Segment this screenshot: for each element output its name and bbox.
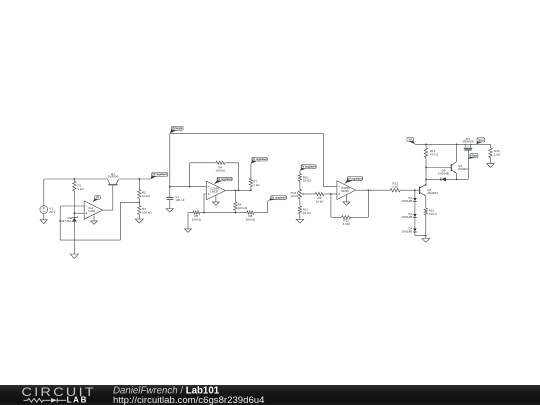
ground under R5	[185, 229, 192, 232]
logo resistor-diode squiggle	[24, 398, 67, 402]
svg-text:100 kΩ: 100 kΩ	[216, 169, 226, 173]
flag 5V regulated on R8	[268, 196, 287, 201]
ground under R3	[135, 219, 143, 223]
op-amp COMP2	[337, 181, 356, 200]
resistor R8	[236, 211, 268, 222]
svg-text:5V regulated: 5V regulated	[348, 177, 363, 180]
svg-text:100 kΩ: 100 kΩ	[238, 206, 248, 210]
svg-text:10 kΩ: 10 kΩ	[303, 179, 312, 183]
svg-text:470 Ω: 470 Ω	[430, 152, 439, 156]
resistor R13	[390, 181, 400, 192]
ground under COMP2	[343, 195, 350, 205]
svg-text:5V regulated: 5V regulated	[217, 178, 232, 181]
svg-text:10 kΩ: 10 kΩ	[316, 199, 325, 203]
svg-text:20 V: 20 V	[49, 210, 55, 214]
resistor R12 hysteresis	[331, 190, 369, 226]
potentiometer POT1	[290, 189, 305, 199]
wire OA1 output to Q1 base	[103, 185, 113, 210]
op-amp COMP1	[207, 181, 226, 200]
svg-text:10 kΩ: 10 kΩ	[303, 211, 312, 215]
svg-text:5V regulated: 5V regulated	[301, 166, 316, 169]
svg-text:SPEAKER: SPEAKER	[462, 141, 474, 144]
wire Q1 emitter rail	[119, 178, 151, 180]
flag 5V on top rail	[407, 137, 415, 144]
svg-text:2N3904: 2N3904	[458, 167, 469, 171]
wire Q3 base	[426, 167, 451, 169]
wire top 5V rail	[415, 143, 491, 145]
svg-text:LM339: LM339	[210, 190, 218, 194]
svg-text:Vtriangle: Vtriangle	[172, 127, 183, 130]
resistor R16	[489, 144, 501, 163]
ground under D1	[70, 254, 78, 258]
svg-text:100 kΩ: 100 kΩ	[142, 210, 152, 214]
svg-text:2N3904: 2N3904	[427, 191, 438, 195]
wire R1 to zener	[73, 191, 75, 218]
resistor R6	[234, 190, 248, 212]
voltage source V1	[40, 179, 56, 220]
resistor R11	[298, 206, 311, 219]
transistor Q2	[420, 184, 439, 208]
wire Vtriangle rail to stage 3	[170, 133, 323, 186]
wire chain bottom to ground	[415, 232, 427, 239]
resistor R3	[138, 206, 153, 220]
CircuitLab logo wordmark CIRCUIT	[22, 385, 97, 399]
svg-text:1 kΩ: 1 kΩ	[494, 152, 501, 156]
svg-text:1 kΩ: 1 kΩ	[392, 185, 399, 189]
flag Vout	[476, 138, 485, 144]
resistor R2	[138, 179, 151, 199]
svg-text:5V regulated: 5V regulated	[152, 173, 167, 176]
svg-text:1 kΩ: 1 kΩ	[77, 187, 84, 191]
svg-text:10 kΩ: 10 kΩ	[290, 194, 299, 198]
resistor R10	[298, 171, 311, 183]
svg-text:5V regulated: 5V regulated	[252, 158, 267, 161]
wire divider midpoint	[138, 199, 140, 206]
flag 5V regulated supply on COMP2	[344, 177, 362, 184]
svg-text:100 Ω: 100 Ω	[429, 212, 438, 216]
wire R10 to POT1	[299, 181, 301, 189]
ground under C1	[166, 209, 173, 213]
svg-text:1N914B: 1N914B	[438, 171, 449, 175]
svg-text:100 nF: 100 nF	[175, 198, 185, 202]
wire top rail V1 to Q1 collector	[44, 178, 108, 180]
wire R8 to flag	[267, 201, 269, 213]
resistor R14	[424, 144, 438, 157]
wire COMP1 non-inverting input	[204, 194, 207, 213]
diode D5	[438, 169, 449, 182]
svg-text:LAB: LAB	[67, 395, 89, 404]
svg-text:1N914B: 1N914B	[401, 230, 412, 234]
footer bar	[0, 385, 540, 405]
transistor Q3	[451, 144, 469, 179]
svg-text:1N914B: 1N914B	[401, 215, 412, 219]
svg-text:TL081: TL081	[88, 209, 96, 213]
wire zener to ground	[73, 222, 75, 254]
flag 5V regulated on divider	[300, 165, 317, 171]
svg-text:100 kΩ: 100 kΩ	[246, 218, 256, 222]
ground under COMP1	[213, 195, 220, 205]
svg-text:2N3904: 2N3904	[108, 175, 119, 179]
resistor R15	[424, 208, 437, 236]
wire R14 to Q2 collector	[425, 158, 427, 186]
flag 5V regulated supply on COMP1	[214, 177, 233, 184]
diode D2	[401, 196, 416, 203]
resistor R4 feedback	[190, 161, 239, 190]
wire D5 line	[426, 178, 468, 180]
wire R13 to Q2 base	[400, 189, 419, 191]
svg-text:1 kΩ: 1 kΩ	[253, 183, 260, 187]
svg-text:1 MΩ: 1 MΩ	[343, 222, 351, 226]
wire Vtriangle down to C1 node	[169, 133, 171, 186]
diode D4	[401, 227, 416, 234]
capacitor C1	[166, 187, 184, 209]
svg-text:LM339: LM339	[341, 189, 349, 193]
wire feedback to inverting input	[60, 202, 139, 240]
diode chain D2 D3 D4 wire	[414, 190, 416, 198]
svg-text:1N4744A: 1N4744A	[59, 219, 72, 223]
wire D2 to D3	[414, 202, 416, 214]
transistor Q1	[107, 172, 118, 185]
flag 5V regulated output	[150, 173, 168, 180]
resistor R9	[306, 192, 331, 203]
flag VSpkr	[468, 154, 478, 159]
wire speaker to emitter node	[467, 151, 469, 180]
svg-text:1N914B: 1N914B	[401, 199, 412, 203]
wire POT1 to R11	[299, 199, 301, 206]
wire C1 node to COMP1 inverting input	[169, 186, 207, 188]
wire COMP2 output	[356, 189, 391, 191]
svg-text:5V regulated: 5V regulated	[271, 196, 286, 199]
wire COMP1 output	[226, 189, 252, 191]
resistor R1	[73, 179, 85, 191]
svg-text:5V: 5V	[409, 138, 412, 141]
svg-text:100 kΩ: 100 kΩ	[192, 218, 202, 222]
wire D3 to D4	[414, 218, 416, 229]
svg-text:http://circuitlab.com/c6gs8r23: http://circuitlab.com/c6gs8r239d6u4	[113, 394, 265, 405]
op-amp OA1	[84, 201, 102, 219]
ground under OA1	[91, 215, 98, 224]
svg-text:10 kΩ: 10 kΩ	[142, 194, 151, 198]
flag V1 supply on OA1	[93, 196, 101, 203]
resistor R5	[192, 211, 202, 222]
flag 5V regulated on R7	[251, 157, 268, 163]
wire op-amp + input	[74, 212, 84, 214]
speaker SP1	[462, 138, 474, 151]
zener diode D1	[59, 216, 78, 223]
ground under V1	[40, 220, 47, 224]
ground under R11	[296, 219, 304, 223]
diode D3	[401, 212, 416, 219]
ground under R15	[422, 239, 430, 243]
wire COMP2 inverting input	[323, 186, 337, 188]
wire to COMP2 non-inverting input	[330, 193, 337, 195]
svg-text:Vout: Vout	[478, 139, 484, 142]
wire bottom threshold net	[188, 212, 236, 229]
ground under R16	[487, 164, 495, 168]
flag Vtriangle	[170, 126, 183, 133]
resistor R7 pull-up	[249, 164, 260, 191]
